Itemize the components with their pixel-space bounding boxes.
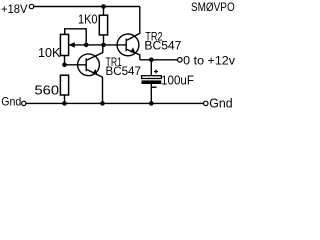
wire pot bottom lead — [64, 56, 66, 65]
node output terminal — [178, 58, 183, 63]
svg-text:+18V: +18V — [1, 2, 28, 16]
wire C1 bottom lead — [150, 84, 152, 103]
svg-text:560: 560 — [35, 82, 60, 97]
wire TR1 base lead — [65, 64, 87, 66]
potentiometer VR1 10K body — [60, 34, 68, 55]
wire C1 top lead — [150, 60, 152, 76]
node Gnd terminal right — [204, 101, 208, 105]
capacitor C1 100uF negative plate — [142, 80, 162, 84]
label C1 minus sign — [152, 86, 157, 88]
svg-text:100uF: 100uF — [161, 72, 194, 87]
wire output line — [140, 59, 177, 61]
svg-text:BC547: BC547 — [144, 41, 181, 53]
wire top rail — [34, 6, 140, 8]
transistor TR1 BC547 — [78, 45, 103, 104]
label C1 plus sign — [154, 70, 158, 74]
wire bottom rail — [26, 102, 203, 104]
svg-text:0 to +12v: 0 to +12v — [183, 53, 235, 67]
node junction top rail / R1 — [101, 4, 106, 9]
resistor R2 560 — [60, 75, 68, 95]
node junction R1/TR1 collector/TR2 base — [101, 43, 106, 48]
svg-text:BC547: BC547 — [106, 66, 141, 78]
svg-text:Gnd: Gnd — [1, 95, 21, 109]
wire pot-top bridge — [65, 29, 87, 45]
svg-text:10K: 10K — [38, 45, 61, 60]
node junction TR1 emitter/bottom rail — [100, 101, 105, 106]
potentiometer VR1 wiper arrow — [69, 42, 75, 48]
wire R2 bottom lead — [64, 95, 66, 103]
wire node line (wiper to TR2 base) — [69, 44, 127, 46]
transistor TR2 BC547 — [117, 7, 140, 60]
node junction output/C1 — [149, 58, 154, 63]
node Gnd terminal left — [22, 101, 26, 105]
node +18V terminal — [29, 4, 33, 8]
transistor TR2 emitter arrow — [130, 47, 135, 53]
node junction pot/R2/TR1 base — [62, 63, 67, 68]
transistor TR1 emitter arrow — [92, 69, 97, 75]
wire R1 top lead — [103, 7, 105, 16]
node junction bridge/wiper — [84, 43, 89, 48]
svg-text:Gnd: Gnd — [209, 96, 232, 110]
resistor R1 1K0 — [99, 15, 107, 35]
capacitor C1 100uF positive plate — [142, 76, 162, 79]
node junction C1/bottom rail — [149, 101, 154, 106]
node junction R2/bottom rail — [62, 101, 67, 106]
wire R1 bottom lead — [103, 35, 105, 45]
svg-text:1K0: 1K0 — [78, 11, 98, 26]
svg-text:SMØVPO: SMØVPO — [191, 0, 235, 14]
